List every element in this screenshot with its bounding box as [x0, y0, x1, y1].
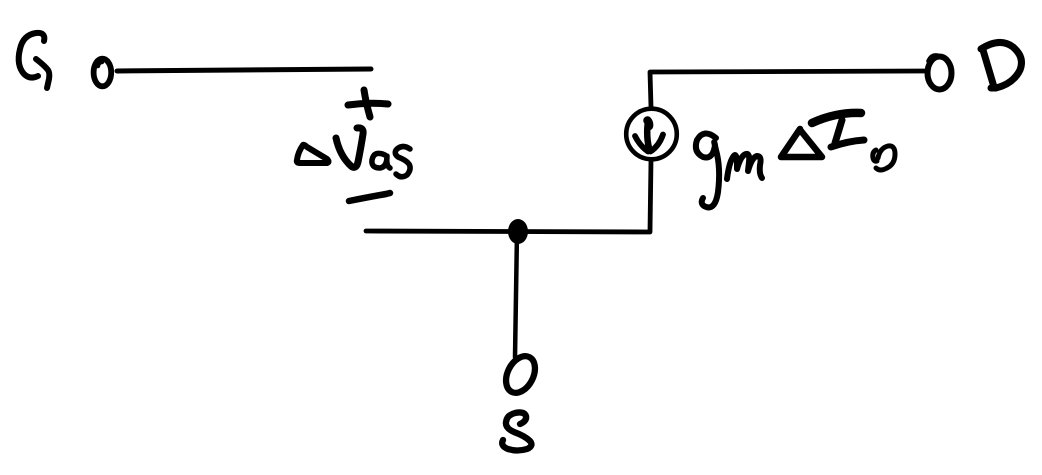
label delta vGS — [297, 128, 410, 177]
minus sign — [349, 193, 390, 201]
wire source rail — [366, 231, 650, 232]
wire gate — [117, 69, 371, 71]
label gm delta iD — [696, 113, 895, 207]
junction dot — [508, 219, 528, 244]
current source CS1 — [626, 109, 677, 160]
plus sign — [348, 90, 388, 117]
node G label — [19, 33, 50, 88]
wire drain vertical and top — [650, 71, 925, 107]
terminal G — [94, 59, 112, 87]
current source arrow — [635, 121, 663, 152]
node S label — [502, 412, 531, 450]
wire source stub — [515, 232, 517, 357]
terminal S — [500, 351, 541, 397]
wire current source bottom — [650, 160, 651, 231]
node D label — [981, 42, 1021, 88]
terminal D — [928, 56, 952, 90]
